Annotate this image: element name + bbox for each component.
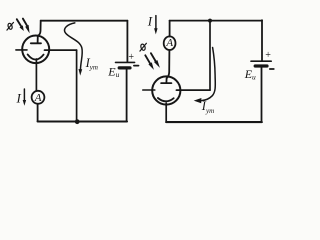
svg-text:I: I — [16, 91, 22, 106]
light ray arrow 2 (left) — [23, 19, 28, 27]
wire left drop to ammeter — [169, 21, 171, 37]
label - (left battery) — [134, 65, 139, 67]
battery E2 long plate — [251, 60, 271, 62]
wire ammeter to bottom — [37, 104, 39, 121]
light ray arrow 1 (right) — [145, 55, 150, 64]
svg-text:+: + — [265, 50, 272, 61]
wire top (right circuit) — [170, 20, 262, 22]
wire right side top (left circuit) — [126, 21, 128, 62]
label Phi (left) — [7, 22, 14, 30]
battery E1 short plate — [119, 66, 130, 69]
right chord pin / wire of VL1 — [45, 49, 77, 51]
wire right side bottom (left circuit) — [126, 70, 128, 122]
label - (right battery) — [270, 68, 274, 70]
svg-text:A: A — [165, 37, 173, 49]
wire right side bottom (right circuit) — [261, 68, 263, 123]
cathode arc of VL2 — [158, 98, 174, 101]
wire right side top (right circuit) — [261, 20, 263, 60]
wire side drop to bottom (left circuit) — [76, 50, 78, 121]
label Phi (right) — [140, 43, 147, 51]
wire top (left circuit) — [41, 20, 128, 22]
curved photocurrent arrow (left) — [64, 23, 82, 69]
wire left drop from top to phototube anode — [38, 21, 41, 43]
right chord pin / wire of VL2 — [176, 89, 210, 91]
wire ammeter to phototube — [166, 50, 169, 83]
cathode lead VL1 — [35, 59, 37, 91]
arrow I direction (right) — [155, 16, 157, 29]
svg-text:A: A — [34, 92, 42, 104]
junction dot (right top) — [208, 19, 212, 23]
wire bottom (right circuit) — [166, 121, 262, 123]
battery E2 short plate — [255, 64, 267, 67]
anode bar of VL1 — [31, 42, 41, 44]
left chord pin of VL1 — [16, 49, 27, 51]
phototube VL1 envelope — [22, 36, 49, 64]
phototube VL2 envelope — [152, 76, 180, 104]
svg-text:+: + — [128, 52, 135, 63]
light ray arrow 1 (left) — [17, 19, 22, 27]
cathode lead VL2 — [165, 103, 167, 122]
left chord pin of VL2 — [143, 89, 155, 91]
junction dot (left bottom) — [75, 119, 80, 124]
arrow I direction (left) — [23, 89, 25, 100]
curved photocurrent arrow (right) — [202, 48, 216, 101]
battery E1 long plate — [116, 61, 135, 63]
wire bottom (left circuit) — [38, 120, 127, 122]
svg-text:I: I — [147, 14, 153, 29]
ammeter A (right) — [164, 36, 176, 50]
cathode arc of VL1 — [28, 54, 44, 59]
ammeter A (left) — [32, 91, 45, 104]
wire inner vertical up to top (right circuit) — [209, 21, 211, 91]
anode bar of VL2 — [161, 82, 171, 84]
light ray arrow 2 (right) — [151, 53, 156, 61]
